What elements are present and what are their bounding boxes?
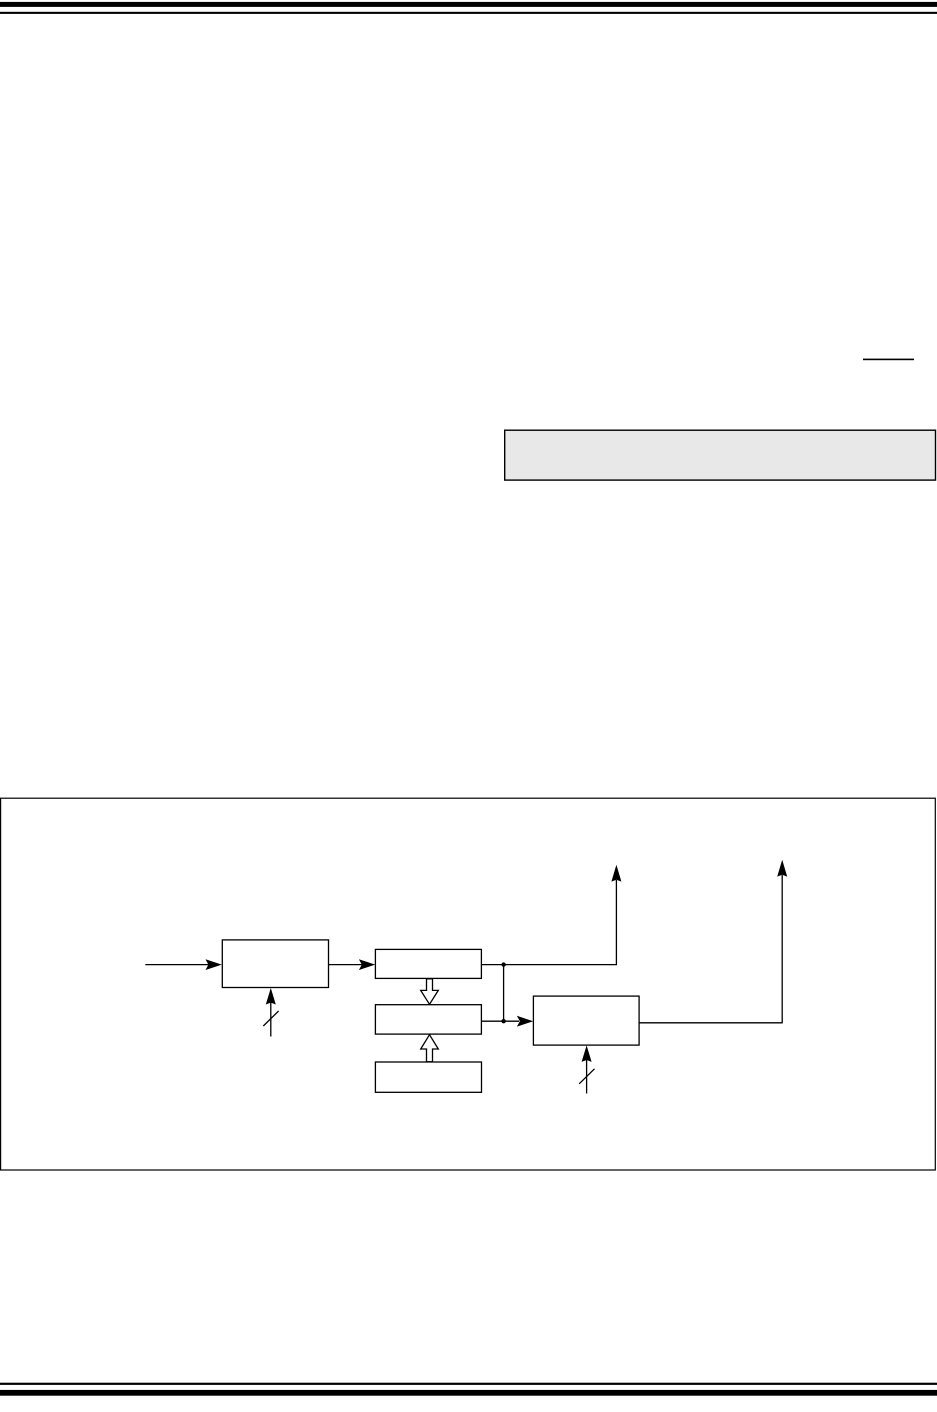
wire: node down to comparator output line xyxy=(503,965,505,1022)
block: comparator xyxy=(375,1005,481,1034)
wire: prescaler to timer register xyxy=(329,959,376,970)
figure frame xyxy=(1,798,936,1170)
top thick rule xyxy=(0,2,937,7)
top thin rule xyxy=(0,12,937,14)
junction: timer output node xyxy=(501,962,505,966)
block: period register xyxy=(375,1062,481,1092)
hollow arrow: period register to comparator xyxy=(421,1035,439,1062)
bus arrow: postscaler select (with slash) xyxy=(579,1045,594,1093)
overline (bar over signal name) xyxy=(863,359,914,361)
bus arrow: prescaler select (with slash) xyxy=(263,988,278,1037)
bottom thick rule xyxy=(0,1390,937,1396)
wire: postscaler output up to top xyxy=(639,860,787,1024)
block: postscaler xyxy=(533,996,639,1045)
block: timer register xyxy=(375,949,481,978)
note box (gray) xyxy=(505,430,936,480)
wire: comparator to postscaler xyxy=(481,1016,533,1027)
wire: timer register output up to top xyxy=(481,865,621,965)
wire: clock input into prescaler xyxy=(145,959,222,970)
junction: comparator output node xyxy=(501,1019,505,1023)
hollow arrow: timer register to comparator xyxy=(421,979,439,1005)
block: prescaler xyxy=(222,940,328,988)
bottom thin rule xyxy=(0,1383,937,1385)
